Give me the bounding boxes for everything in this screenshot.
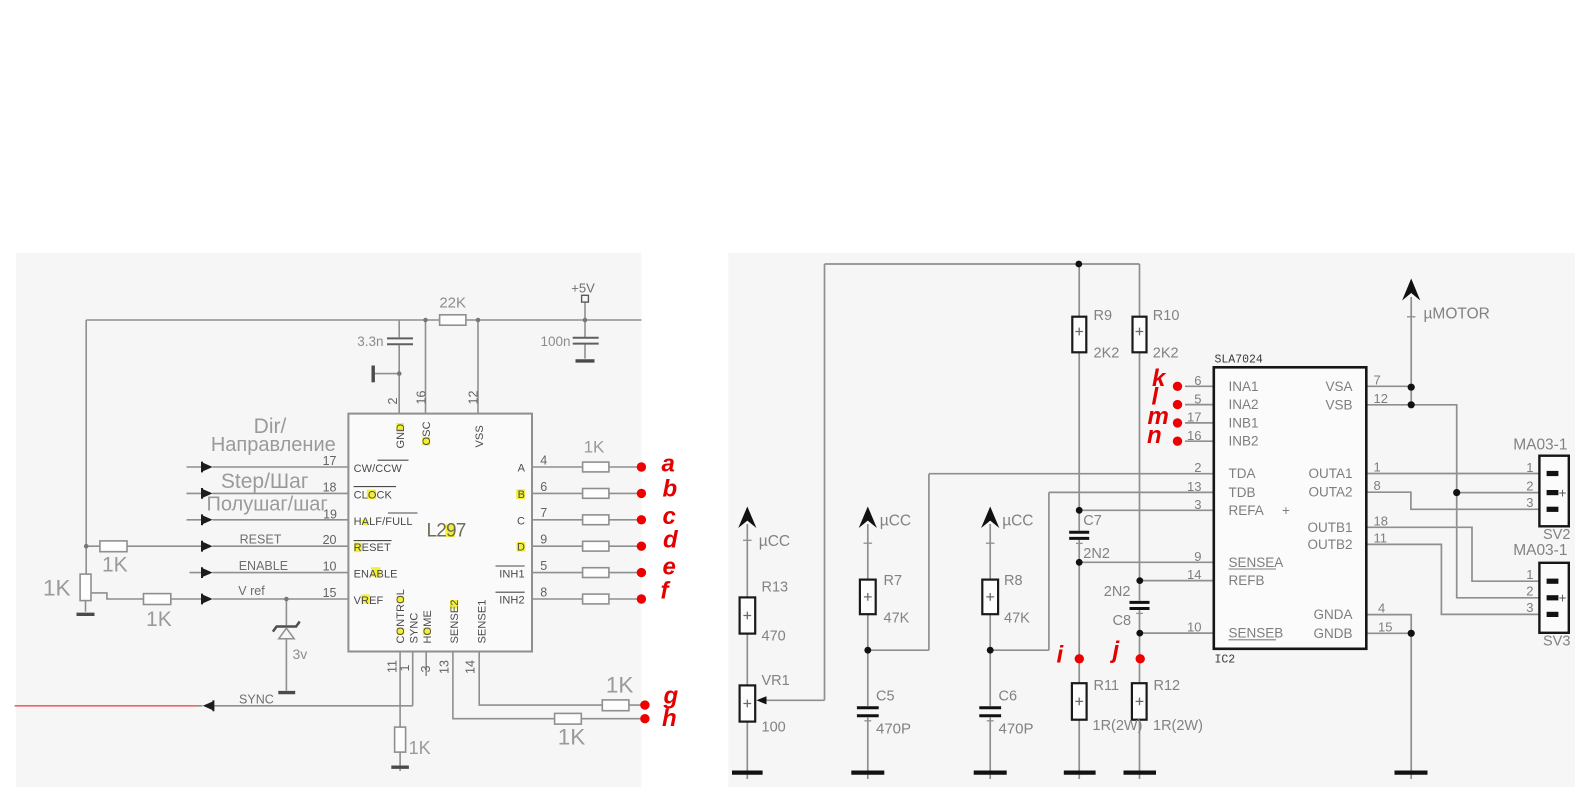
svg-text:2K2: 2K2 bbox=[1094, 346, 1120, 362]
svg-text:h: h bbox=[662, 705, 677, 732]
svg-text:R10: R10 bbox=[1153, 308, 1180, 324]
svg-text:4: 4 bbox=[1378, 601, 1385, 616]
svg-text:1K: 1K bbox=[146, 608, 172, 631]
svg-text:R7: R7 bbox=[884, 573, 903, 589]
svg-text:SV3: SV3 bbox=[1543, 634, 1570, 650]
svg-text:4: 4 bbox=[540, 453, 547, 467]
svg-text:MA03-1: MA03-1 bbox=[1513, 542, 1567, 559]
svg-text:Направление: Направление bbox=[211, 434, 336, 456]
svg-text:OUTB2: OUTB2 bbox=[1307, 537, 1352, 552]
svg-text:47K: 47K bbox=[1004, 611, 1030, 627]
svg-text:16: 16 bbox=[1187, 428, 1201, 443]
svg-text:VSS: VSS bbox=[474, 425, 486, 447]
svg-text:CONTROL: CONTROL bbox=[395, 589, 407, 643]
svg-text:R11: R11 bbox=[1094, 678, 1120, 694]
svg-text:VSA: VSA bbox=[1325, 379, 1352, 394]
svg-text:16: 16 bbox=[415, 391, 429, 405]
svg-text:12: 12 bbox=[1374, 391, 1388, 406]
svg-text:1: 1 bbox=[1374, 460, 1381, 475]
svg-text:1K: 1K bbox=[43, 576, 71, 601]
svg-text:B: B bbox=[518, 489, 525, 501]
svg-text:+5V: +5V bbox=[571, 281, 595, 296]
svg-text:µCC: µCC bbox=[1002, 513, 1033, 530]
svg-text:1: 1 bbox=[398, 665, 412, 672]
svg-text:5: 5 bbox=[540, 559, 547, 573]
svg-text:A: A bbox=[518, 463, 526, 475]
svg-text:C5: C5 bbox=[876, 689, 895, 705]
svg-text:8: 8 bbox=[540, 585, 547, 599]
svg-text:Step/Шаг: Step/Шаг bbox=[221, 470, 309, 493]
svg-text:17: 17 bbox=[1187, 410, 1201, 425]
svg-text:2N2: 2N2 bbox=[1083, 546, 1110, 562]
svg-text:SENSE2: SENSE2 bbox=[449, 599, 461, 643]
svg-text:VREF: VREF bbox=[354, 595, 384, 607]
svg-text:INA2: INA2 bbox=[1229, 397, 1259, 412]
svg-text:1K: 1K bbox=[584, 437, 605, 456]
svg-text:HALF/FULL: HALF/FULL bbox=[354, 516, 413, 528]
svg-text:IC2: IC2 bbox=[1215, 654, 1236, 667]
svg-text:CLOCK: CLOCK bbox=[354, 489, 393, 501]
svg-text:INA1: INA1 bbox=[1229, 379, 1259, 394]
svg-text:REFA: REFA bbox=[1229, 503, 1264, 518]
svg-text:VR1: VR1 bbox=[762, 673, 790, 689]
svg-text:R8: R8 bbox=[1004, 573, 1023, 589]
svg-text:14: 14 bbox=[464, 660, 478, 674]
svg-text:C7: C7 bbox=[1083, 513, 1102, 529]
svg-text:2: 2 bbox=[1194, 460, 1201, 475]
svg-text:SYNC: SYNC bbox=[239, 693, 274, 707]
svg-text:15: 15 bbox=[323, 586, 337, 600]
svg-text:CW/CCW: CW/CCW bbox=[354, 463, 403, 475]
svg-text:2N2: 2N2 bbox=[1104, 584, 1131, 600]
svg-text:L297: L297 bbox=[427, 520, 466, 541]
svg-text:18: 18 bbox=[1374, 513, 1388, 528]
svg-text:GND: GND bbox=[395, 424, 407, 449]
svg-text:8: 8 bbox=[1374, 478, 1381, 493]
svg-text:C6: C6 bbox=[999, 689, 1018, 705]
svg-text:17: 17 bbox=[323, 454, 337, 468]
svg-text:2: 2 bbox=[386, 398, 400, 405]
svg-text:3: 3 bbox=[419, 666, 433, 673]
svg-text:C8: C8 bbox=[1113, 613, 1132, 629]
svg-text:TDA: TDA bbox=[1229, 466, 1256, 481]
svg-text:470P: 470P bbox=[999, 721, 1034, 738]
svg-text:n: n bbox=[1147, 422, 1162, 449]
svg-text:1R(2W): 1R(2W) bbox=[1093, 718, 1143, 734]
svg-text:SLA7024: SLA7024 bbox=[1215, 354, 1263, 367]
svg-text:2: 2 bbox=[1526, 584, 1533, 599]
svg-text:SYNC: SYNC bbox=[408, 613, 420, 644]
svg-text:R13: R13 bbox=[762, 580, 789, 596]
svg-text:µCC: µCC bbox=[759, 533, 790, 550]
svg-text:18: 18 bbox=[323, 480, 337, 494]
svg-text:MA03-1: MA03-1 bbox=[1513, 437, 1567, 454]
svg-text:d: d bbox=[663, 527, 679, 554]
svg-text:6: 6 bbox=[540, 480, 547, 494]
svg-text:9: 9 bbox=[540, 533, 547, 547]
svg-text:1K: 1K bbox=[558, 725, 586, 750]
svg-text:3: 3 bbox=[1526, 600, 1533, 615]
svg-text:INB2: INB2 bbox=[1229, 434, 1259, 449]
svg-text:OUTB1: OUTB1 bbox=[1307, 520, 1352, 535]
svg-text:OUTA2: OUTA2 bbox=[1308, 485, 1352, 500]
svg-text:2K2: 2K2 bbox=[1153, 346, 1179, 362]
svg-text:R9: R9 bbox=[1094, 308, 1113, 324]
svg-text:7: 7 bbox=[540, 506, 547, 520]
svg-text:15: 15 bbox=[1378, 619, 1392, 634]
svg-text:D: D bbox=[517, 542, 525, 554]
svg-text:1: 1 bbox=[1526, 567, 1533, 582]
svg-text:VSB: VSB bbox=[1325, 398, 1352, 413]
svg-text:µCC: µCC bbox=[880, 513, 911, 530]
svg-text:ENABLE: ENABLE bbox=[239, 559, 288, 573]
svg-text:SENSEB: SENSEB bbox=[1229, 626, 1284, 641]
svg-text:INH2: INH2 bbox=[499, 595, 524, 607]
svg-text:1K: 1K bbox=[102, 554, 128, 577]
svg-text:+: + bbox=[1282, 503, 1290, 518]
svg-text:13: 13 bbox=[437, 660, 451, 674]
svg-text:SENSE1: SENSE1 bbox=[477, 599, 489, 643]
svg-text:REFB: REFB bbox=[1229, 573, 1265, 588]
svg-text:SV2: SV2 bbox=[1543, 527, 1570, 543]
svg-text:5: 5 bbox=[1194, 391, 1201, 406]
svg-text:3v: 3v bbox=[293, 646, 308, 662]
svg-text:100n: 100n bbox=[540, 334, 570, 349]
svg-text:7: 7 bbox=[1374, 372, 1381, 387]
svg-text:11: 11 bbox=[1374, 530, 1388, 545]
svg-text:HOME: HOME bbox=[422, 610, 434, 643]
svg-text:V ref: V ref bbox=[238, 584, 265, 598]
svg-text:14: 14 bbox=[1187, 567, 1201, 582]
svg-text:GNDA: GNDA bbox=[1313, 607, 1352, 622]
svg-text:C: C bbox=[517, 515, 525, 527]
svg-text:10: 10 bbox=[323, 560, 337, 574]
svg-text:470: 470 bbox=[762, 629, 786, 645]
svg-text:INB1: INB1 bbox=[1229, 415, 1259, 430]
svg-text:1: 1 bbox=[1526, 460, 1533, 475]
svg-text:+: + bbox=[1559, 487, 1567, 502]
svg-text:+: + bbox=[1559, 593, 1567, 608]
svg-text:RESET: RESET bbox=[240, 532, 282, 546]
svg-text:22K: 22K bbox=[439, 295, 466, 312]
svg-text:3: 3 bbox=[1194, 497, 1201, 512]
svg-text:b: b bbox=[663, 476, 678, 503]
svg-text:INH1: INH1 bbox=[499, 568, 524, 580]
svg-text:R12: R12 bbox=[1154, 678, 1181, 694]
svg-text:SENSEA: SENSEA bbox=[1229, 555, 1284, 570]
svg-text:1K: 1K bbox=[606, 673, 634, 698]
svg-text:1R(2W): 1R(2W) bbox=[1153, 718, 1203, 734]
svg-text:100: 100 bbox=[762, 720, 786, 736]
svg-text:1K: 1K bbox=[409, 738, 431, 758]
svg-text:GNDB: GNDB bbox=[1313, 626, 1352, 641]
svg-text:2: 2 bbox=[1526, 478, 1533, 493]
svg-text:13: 13 bbox=[1187, 479, 1201, 494]
svg-text:µMOTOR: µMOTOR bbox=[1424, 306, 1490, 323]
svg-text:9: 9 bbox=[1194, 549, 1201, 564]
svg-text:a: a bbox=[662, 451, 675, 478]
svg-text:OUTA1: OUTA1 bbox=[1308, 466, 1352, 481]
svg-text:ENABLE: ENABLE bbox=[354, 569, 398, 581]
svg-text:3: 3 bbox=[1526, 495, 1533, 510]
svg-text:TDB: TDB bbox=[1229, 485, 1256, 500]
svg-text:Полушаг/шаг: Полушаг/шаг bbox=[206, 493, 327, 515]
svg-text:47K: 47K bbox=[884, 611, 910, 627]
svg-text:12: 12 bbox=[467, 391, 481, 405]
svg-text:10: 10 bbox=[1187, 620, 1201, 635]
svg-text:e: e bbox=[663, 554, 676, 581]
svg-text:RESET: RESET bbox=[354, 542, 391, 554]
svg-text:6: 6 bbox=[1194, 373, 1201, 388]
svg-text:OSC: OSC bbox=[421, 421, 433, 445]
svg-text:20: 20 bbox=[323, 533, 337, 547]
svg-text:3.3n: 3.3n bbox=[357, 334, 383, 349]
svg-text:470P: 470P bbox=[876, 721, 911, 738]
